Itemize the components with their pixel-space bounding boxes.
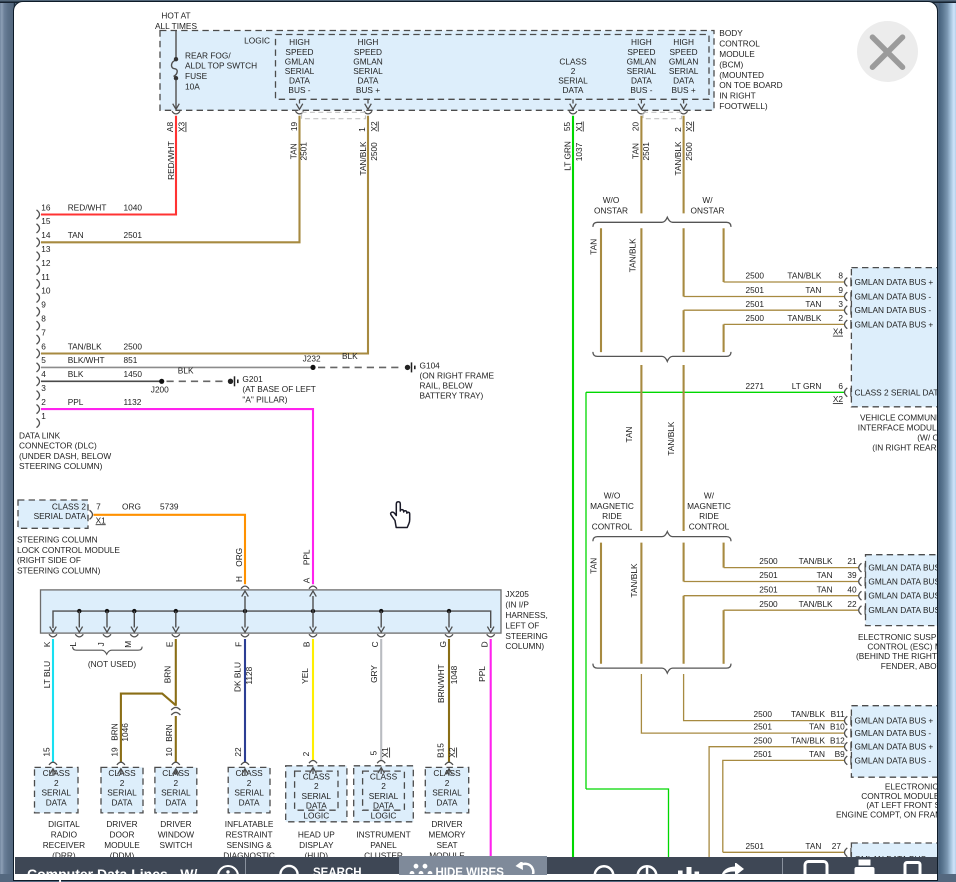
svg-text:(NOT USED): (NOT USED)	[88, 659, 136, 669]
svg-text:22: 22	[233, 747, 243, 757]
svg-text:ONSTAR: ONSTAR	[691, 205, 725, 215]
svg-text:TAN: TAN	[805, 285, 821, 295]
wire DK BLU 1128 from F to SDM	[244, 639, 246, 763]
svg-text:GMLAN DATA BUS -: GMLAN DATA BUS -	[855, 728, 932, 738]
svg-text:X4: X4	[833, 327, 844, 337]
svg-text:CLASS: CLASS	[235, 768, 263, 778]
svg-text:DATA: DATA	[631, 76, 652, 86]
wire BRN 1046 branch to driver door module	[121, 694, 176, 763]
wire TAN/BLK (W/O ONSTAR)	[640, 228, 642, 352]
svg-text:2: 2	[381, 781, 386, 791]
svg-text:1046: 1046	[120, 723, 130, 742]
svg-text:2: 2	[314, 781, 319, 791]
wire BRN from E to splice	[175, 639, 177, 706]
svg-text:GMLAN: GMLAN	[285, 56, 315, 66]
svg-text:2500: 2500	[684, 142, 694, 161]
svg-text:DISPLAY: DISPLAY	[299, 840, 334, 850]
wire PPL from D continuing down	[490, 639, 492, 874]
svg-text:DATA: DATA	[46, 797, 67, 807]
svg-text:1: 1	[41, 411, 46, 421]
wire BLK 1450 DLC 4 to splice J200	[41, 380, 162, 382]
svg-text:"A" PILLAR): "A" PILLAR)	[242, 395, 287, 405]
wire RED/WHT 1040 from BCM A8 to DLC 16	[41, 116, 176, 215]
svg-text:BLK: BLK	[68, 369, 84, 379]
svg-text:PPL: PPL	[477, 666, 487, 682]
svg-text:1037: 1037	[574, 142, 584, 161]
svg-text:GMLAN: GMLAN	[669, 56, 699, 66]
svg-text:2500: 2500	[746, 271, 765, 281]
svg-text:CLASS 2: CLASS 2	[52, 501, 87, 511]
svg-text:TAN/BLK: TAN/BLK	[666, 421, 676, 455]
wire YEL from B to HUD	[312, 639, 314, 761]
svg-text:(RIGHT SIDE OF: (RIGHT SIDE OF	[17, 555, 81, 565]
svg-text:2: 2	[247, 778, 252, 788]
wire 2501 TAN from VCIM 3	[684, 309, 844, 311]
svg-text:MEMORY: MEMORY	[428, 830, 466, 840]
page background right border	[939, 0, 956, 874]
svg-text:2501: 2501	[299, 142, 309, 161]
wire TAN (W/O magnetic)	[600, 543, 602, 664]
wire TAN 2501 from BCM 20 to ONSTAR split	[640, 116, 642, 214]
svg-text:BRN: BRN	[110, 723, 120, 741]
svg-text:ALDL TOP SWTCH: ALDL TOP SWTCH	[185, 61, 257, 71]
svg-text:SEAT: SEAT	[436, 840, 457, 850]
svg-text:2500: 2500	[369, 142, 379, 161]
svg-text:55: 55	[562, 122, 572, 132]
page background top border	[0, 0, 956, 3]
svg-text:MODULE: MODULE	[719, 49, 755, 59]
ONSTAR split brace	[593, 217, 731, 227]
wire 2271 LT GRN to VCIM 6 (with branch down)	[586, 391, 844, 393]
svg-text:15: 15	[41, 747, 51, 757]
bookmark icon	[901, 861, 927, 874]
svg-text:H: H	[234, 576, 244, 582]
wire TAN/BLK 2500 from ECM B12	[709, 747, 844, 874]
svg-text:TAN/BLK: TAN/BLK	[68, 341, 102, 351]
wire 2500 TAN/BLK to ESC 21	[724, 567, 859, 569]
svg-text:X1: X1	[380, 747, 390, 758]
svg-text:DIGITAL: DIGITAL	[48, 819, 80, 829]
wire 2501 TAN to bottom module pin 27	[723, 851, 844, 853]
svg-text:B9: B9	[835, 749, 846, 759]
wire 2501 TAN to VCIM 9	[684, 296, 844, 298]
svg-text:W/O: W/O	[603, 195, 620, 205]
BCM logic inner box	[276, 35, 710, 100]
svg-text:PPL: PPL	[301, 549, 311, 565]
svg-text:DRIVER: DRIVER	[106, 819, 137, 829]
svg-text:STEERING COLUMN): STEERING COLUMN)	[19, 461, 103, 471]
svg-text:TAN: TAN	[624, 427, 634, 443]
svg-text:SERIAL: SERIAL	[353, 66, 383, 76]
history icon	[622, 859, 658, 879]
module ESC box	[866, 555, 945, 626]
wire TAN 2501 to ECM B10	[641, 674, 844, 733]
svg-text:SPEED: SPEED	[354, 47, 382, 57]
svg-text:X2: X2	[369, 121, 379, 132]
wire 2500 TAN/BLK from VCIM 2	[724, 323, 844, 325]
svg-text:ON TOE BOARD: ON TOE BOARD	[719, 80, 782, 90]
svg-text:STEERING: STEERING	[505, 631, 547, 641]
svg-text:RIDE: RIDE	[699, 511, 719, 521]
svg-text:WINDOW: WINDOW	[158, 830, 195, 840]
svg-text:(BCM): (BCM)	[719, 59, 743, 69]
svg-text:DOOR: DOOR	[110, 830, 135, 840]
svg-text:2: 2	[838, 313, 843, 323]
module ECM box	[851, 706, 944, 778]
svg-text:10A: 10A	[185, 82, 200, 92]
svg-text:LT BLU: LT BLU	[42, 661, 52, 688]
fuse F1 REAR FOG/ALDL TOP SWTCH FUSE 10A	[171, 31, 257, 109]
svg-text:BRN/WHT: BRN/WHT	[436, 664, 446, 703]
svg-text:GMLAN DATA BUS +: GMLAN DATA BUS +	[868, 605, 947, 615]
svg-text:2501: 2501	[746, 285, 765, 295]
share icon	[711, 863, 751, 874]
svg-text:LT GRN: LT GRN	[562, 141, 572, 171]
svg-text:A: A	[301, 577, 311, 583]
svg-text:YEL: YEL	[300, 668, 310, 684]
svg-text:(AT BASE OF LEFT: (AT BASE OF LEFT	[242, 384, 315, 394]
svg-text:GMLAN DATA BUS +: GMLAN DATA BUS +	[855, 716, 934, 726]
svg-text:(W/ ONSTAR): (W/ ONSTAR)	[917, 433, 956, 443]
svg-text:FUSE: FUSE	[185, 71, 208, 81]
close button	[857, 21, 918, 82]
svg-text:TAN: TAN	[289, 143, 299, 159]
wire TAN/BLK to ESC 21 / from ESC 22	[723, 543, 725, 568]
svg-text:BRN: BRN	[162, 666, 172, 684]
svg-text:GMLAN DATA BUS +: GMLAN DATA BUS +	[855, 319, 934, 329]
svg-text:J200: J200	[151, 384, 169, 394]
svg-text:9: 9	[41, 300, 46, 310]
svg-text:2: 2	[301, 751, 311, 756]
ONSTAR merge brace	[593, 352, 731, 362]
svg-text:2500: 2500	[746, 313, 765, 323]
svg-text:TAN/BLK: TAN/BLK	[673, 141, 683, 175]
svg-text:9: 9	[838, 285, 843, 295]
svg-text:G104: G104	[420, 360, 441, 370]
svg-text:DATA LINK: DATA LINK	[19, 431, 61, 441]
svg-text:TAN/BLK: TAN/BLK	[358, 141, 368, 175]
wire ORG 5739 to JX205 H	[94, 515, 246, 584]
svg-text:DATA: DATA	[373, 801, 394, 811]
svg-text:5: 5	[41, 355, 46, 365]
svg-text:ORG: ORG	[122, 501, 141, 511]
svg-text:CONTROL: CONTROL	[592, 522, 633, 532]
svg-text:LOCK CONTROL MODULE: LOCK CONTROL MODULE	[17, 545, 120, 555]
BCM connector dashed outline pins 20/2	[643, 112, 682, 118]
wire TAN/BLK 2500 to ECM B11	[684, 674, 844, 721]
svg-text:CLASS: CLASS	[433, 768, 461, 778]
wire 2501 TAN to ESC 39	[684, 581, 859, 583]
svg-text:FOOTWELL): FOOTWELL)	[719, 101, 768, 111]
svg-text:2501: 2501	[754, 749, 773, 759]
svg-text:J: J	[96, 642, 106, 646]
svg-text:2500: 2500	[124, 341, 143, 351]
svg-text:CLASS: CLASS	[108, 768, 136, 778]
svg-text:TAN/BLK: TAN/BLK	[787, 271, 821, 281]
svg-text:CLASS: CLASS	[43, 768, 71, 778]
svg-text:HARNESS,: HARNESS,	[505, 610, 547, 620]
page background left border	[0, 0, 15, 874]
svg-text:TAN: TAN	[809, 722, 825, 732]
svg-text:RESTRAINT: RESTRAINT	[226, 830, 273, 840]
BCM pin bumps	[172, 111, 180, 114]
svg-text:(ON RIGHT FRAME: (ON RIGHT FRAME	[420, 370, 495, 380]
svg-text:IN RIGHT: IN RIGHT	[719, 91, 755, 101]
module steering column lock control, CLASS 2 SERIAL DATA box	[18, 500, 88, 528]
splice J232	[310, 365, 315, 370]
svg-text:BUS -: BUS -	[288, 85, 310, 95]
svg-text:2: 2	[445, 778, 450, 788]
wire BRN/WHT 1048 from G to memory seat module	[448, 639, 450, 763]
svg-text:SPEED: SPEED	[285, 47, 313, 57]
toolbar	[15, 857, 937, 874]
wire TAN/BLK 2500 from BCM 1 to DLC 6	[41, 116, 368, 354]
svg-text:SERIAL DATA: SERIAL DATA	[34, 511, 87, 521]
svg-text:HOT AT: HOT AT	[161, 11, 190, 21]
svg-text:10: 10	[41, 286, 51, 296]
svg-text:STEERING COLUMN): STEERING COLUMN)	[17, 566, 101, 576]
svg-text:REAR FOG/: REAR FOG/	[185, 50, 231, 60]
svg-text:B10: B10	[830, 722, 845, 732]
JX205 bottom exit stubs with arrows	[78, 611, 80, 627]
svg-text:TAN: TAN	[805, 841, 821, 851]
wire TAN to ESC 39 / from ESC 40	[683, 543, 685, 582]
svg-text:39: 39	[847, 570, 857, 580]
svg-text:SERIAL: SERIAL	[432, 788, 462, 798]
svg-text:GMLAN DATA BUS -: GMLAN DATA BUS -	[855, 292, 932, 302]
svg-text:E: E	[164, 641, 174, 647]
svg-text:ELECTRONIC SUSPEN: ELECTRONIC SUSPEN	[858, 632, 948, 642]
print icon	[853, 859, 879, 874]
svg-text:1048: 1048	[449, 665, 459, 684]
stats icon	[675, 859, 715, 879]
svg-text:RAIL, BELOW: RAIL, BELOW	[420, 380, 473, 390]
svg-text:LOGIC: LOGIC	[371, 811, 397, 821]
wire LT GRN jog to bottom	[586, 789, 669, 874]
svg-text:PPL: PPL	[68, 397, 84, 407]
module digital radio receiver CLASS 2 box	[35, 767, 79, 813]
wire TAN (W/ ONSTAR) to VCIM 9 / from VCIM 3	[683, 228, 685, 296]
svg-text:22: 22	[847, 599, 857, 609]
svg-text:CONTROL: CONTROL	[719, 39, 760, 49]
svg-text:MAGNETIC: MAGNETIC	[590, 501, 634, 511]
svg-text:(MOUNTED: (MOUNTED	[719, 70, 764, 80]
svg-text:15: 15	[41, 216, 51, 226]
svg-text:TAN/BLK: TAN/BLK	[791, 735, 825, 745]
svg-text:GMLAN DATA BUS -: GMLAN DATA BUS -	[868, 591, 945, 601]
svg-text:8: 8	[838, 271, 843, 281]
svg-text:2: 2	[174, 778, 179, 788]
splice chevrons on E wire	[171, 707, 180, 710]
svg-text:DK BLU: DK BLU	[233, 662, 243, 692]
svg-text:CLASS: CLASS	[559, 56, 587, 66]
svg-text:STEERING COLUMN: STEERING COLUMN	[17, 534, 98, 544]
svg-text:ORG: ORG	[234, 548, 244, 567]
svg-text:B12: B12	[830, 735, 845, 745]
svg-text:CONTROL (ESC) MO: CONTROL (ESC) MO	[867, 642, 948, 652]
svg-text:X1: X1	[574, 121, 584, 132]
svg-text:SERIAL: SERIAL	[669, 66, 699, 76]
svg-text:GMLAN DATA BUS -: GMLAN DATA BUS -	[868, 577, 945, 587]
magnetic merge brace	[593, 664, 731, 674]
svg-text:TAN: TAN	[817, 570, 833, 580]
svg-text:SERIAL: SERIAL	[285, 66, 315, 76]
svg-text:TAN: TAN	[817, 584, 833, 594]
svg-text:1132: 1132	[124, 397, 142, 407]
svg-text:1128: 1128	[244, 666, 254, 684]
svg-text:GMLAN DATA BUS +: GMLAN DATA BUS +	[855, 277, 934, 287]
svg-text:X2: X2	[447, 747, 457, 758]
mouse cursor (hand pointer)	[388, 500, 414, 530]
svg-text:B: B	[302, 641, 312, 647]
toolbar info icon	[207, 859, 249, 879]
svg-text:DATA: DATA	[112, 797, 133, 807]
wire TAN (W/O ONSTAR)	[600, 228, 602, 352]
svg-text:3: 3	[41, 383, 46, 393]
svg-text:TAN: TAN	[805, 299, 821, 309]
svg-text:DATA: DATA	[673, 76, 694, 86]
svg-text:CONNECTOR (DLC): CONNECTOR (DLC)	[19, 441, 97, 451]
svg-text:LEFT OF: LEFT OF	[505, 620, 539, 630]
wire TAN 2501 from BCM 19 to DLC 14	[41, 116, 300, 243]
svg-text:2501: 2501	[746, 841, 765, 851]
wire TAN/BLK (W/ ONSTAR) to VCIM 8 / from VCIM 2	[723, 228, 725, 282]
connector DLC pin bumps 16..1	[37, 210, 40, 219]
svg-text:BLK: BLK	[342, 351, 358, 361]
svg-text:TAN: TAN	[589, 239, 599, 255]
svg-text:1450: 1450	[124, 369, 143, 379]
svg-text:TAN/BLK: TAN/BLK	[787, 313, 821, 323]
svg-text:INTERFACE MODULE: INTERFACE MODULE	[858, 422, 943, 432]
svg-text:MODULE: MODULE	[104, 840, 140, 850]
svg-text:SPEED: SPEED	[670, 47, 698, 57]
module driver memory seat CLASS 2 box	[425, 767, 468, 813]
svg-text:DATA: DATA	[358, 76, 379, 86]
svg-text:2501: 2501	[124, 230, 143, 240]
svg-text:7: 7	[41, 327, 46, 337]
svg-text:5739: 5739	[160, 501, 179, 511]
splice J200	[159, 379, 164, 384]
svg-text:13: 13	[41, 244, 51, 254]
svg-text:SERIAL: SERIAL	[302, 791, 332, 801]
svg-text:2501: 2501	[746, 299, 765, 309]
wire TAN/BLK (bus)	[683, 365, 685, 531]
wire 2501 TAN from ESC 40	[684, 595, 859, 597]
svg-text:DRIVER: DRIVER	[431, 819, 462, 829]
ground G104 symbol	[405, 365, 410, 370]
svg-text:BLK: BLK	[178, 365, 194, 375]
brace under L J M (not used pins)	[73, 647, 143, 655]
svg-text:SERIAL: SERIAL	[369, 791, 399, 801]
svg-text:12: 12	[41, 258, 51, 268]
svg-text:DATA: DATA	[239, 797, 260, 807]
svg-text:D: D	[480, 641, 490, 647]
svg-text:RIDE: RIDE	[602, 511, 622, 521]
splice pack JX205 box	[41, 590, 502, 633]
svg-text:MAGNETIC: MAGNETIC	[687, 501, 731, 511]
svg-text:SERIAL: SERIAL	[107, 788, 137, 798]
svg-text:X2: X2	[684, 121, 694, 132]
reset icon	[508, 862, 544, 874]
svg-text:PANEL: PANEL	[370, 840, 397, 850]
svg-text:6: 6	[838, 381, 843, 391]
svg-text:2500: 2500	[754, 709, 773, 719]
dashed wire to ground G104	[318, 366, 403, 368]
module driver door module CLASS 2 box	[101, 767, 143, 813]
svg-text:FENDER, ABOVE: FENDER, ABOVE	[881, 661, 948, 671]
svg-text:BUS +: BUS +	[356, 85, 380, 95]
svg-text:GMLAN DATA BUS -: GMLAN DATA BUS -	[855, 755, 932, 765]
BCM internal arrows to pins	[299, 99, 301, 103]
svg-text:RED/WHT: RED/WHT	[166, 141, 176, 180]
svg-text:CLASS 2 SERIAL DATA: CLASS 2 SERIAL DATA	[855, 387, 944, 397]
svg-text:SERIAL: SERIAL	[558, 76, 588, 86]
svg-text:C: C	[370, 641, 380, 647]
svg-text:SWITCH: SWITCH	[160, 840, 193, 850]
svg-text:F: F	[234, 642, 244, 647]
module (partial) bottom right box	[851, 843, 944, 880]
svg-text:TAN/BLK: TAN/BLK	[791, 709, 825, 719]
pin 7 / X1	[90, 510, 93, 519]
module IPC outer LOGIC box	[354, 766, 414, 822]
svg-text:2500: 2500	[759, 556, 778, 566]
svg-text:G: G	[438, 641, 448, 647]
wire BLK/WHT 851 DLC 5 to splice J232	[41, 366, 313, 368]
svg-text:1: 1	[357, 127, 367, 132]
svg-text:2501: 2501	[754, 722, 773, 732]
wire 2500 TAN/BLK from ESC 22	[724, 609, 859, 611]
svg-text:RED/WHT: RED/WHT	[68, 202, 107, 212]
svg-text:HIGH: HIGH	[358, 37, 379, 47]
module VCIM box	[851, 268, 944, 407]
svg-text:X2: X2	[833, 394, 844, 404]
svg-text:2: 2	[41, 397, 46, 407]
dashed wire to ground G201	[167, 380, 226, 382]
svg-text:8: 8	[41, 314, 46, 324]
wire TAN/BLK 2500 from BCM 2 to ONSTAR split	[683, 116, 685, 214]
svg-text:COLUMN): COLUMN)	[505, 641, 544, 651]
module inflatable restraint SDM CLASS 2 box	[228, 767, 270, 813]
svg-text:TAN/BLK: TAN/BLK	[799, 556, 833, 566]
svg-text:851: 851	[124, 355, 138, 365]
svg-text:2500: 2500	[759, 599, 778, 609]
svg-text:BRN: BRN	[164, 724, 174, 742]
svg-text:DATA: DATA	[165, 797, 186, 807]
toolbar search icon	[275, 859, 303, 879]
svg-text:X3: X3	[177, 122, 187, 133]
svg-text:4: 4	[41, 369, 46, 379]
wire 2500 TAN/BLK to VCIM 8	[724, 281, 844, 283]
JX205 top entries H and A	[244, 596, 246, 611]
svg-text:DRIVER: DRIVER	[160, 819, 191, 829]
svg-text:14: 14	[41, 230, 51, 240]
svg-text:ALL TIMES: ALL TIMES	[155, 21, 197, 31]
wire BRN 10 to driver window switch	[175, 716, 177, 763]
HUD inner CLASS 2 box	[295, 771, 338, 810]
svg-text:DATA: DATA	[306, 801, 327, 811]
svg-text:L: L	[68, 642, 78, 647]
wire TAN 2501 from ECM B9	[723, 760, 844, 852]
svg-text:SERIAL: SERIAL	[161, 788, 191, 798]
module driver window switch CLASS 2 box	[155, 767, 197, 813]
screen icon	[802, 860, 830, 874]
svg-text:B15: B15	[436, 743, 446, 758]
svg-text:ENGINE COMPT, ON FRAM: ENGINE COMPT, ON FRAM	[836, 810, 942, 820]
svg-text:1040: 1040	[124, 202, 143, 212]
svg-text:BUS -: BUS -	[630, 85, 652, 95]
svg-text:JX205: JX205	[505, 589, 529, 599]
svg-text:GMLAN DATA BUS +: GMLAN DATA BUS +	[868, 563, 947, 573]
